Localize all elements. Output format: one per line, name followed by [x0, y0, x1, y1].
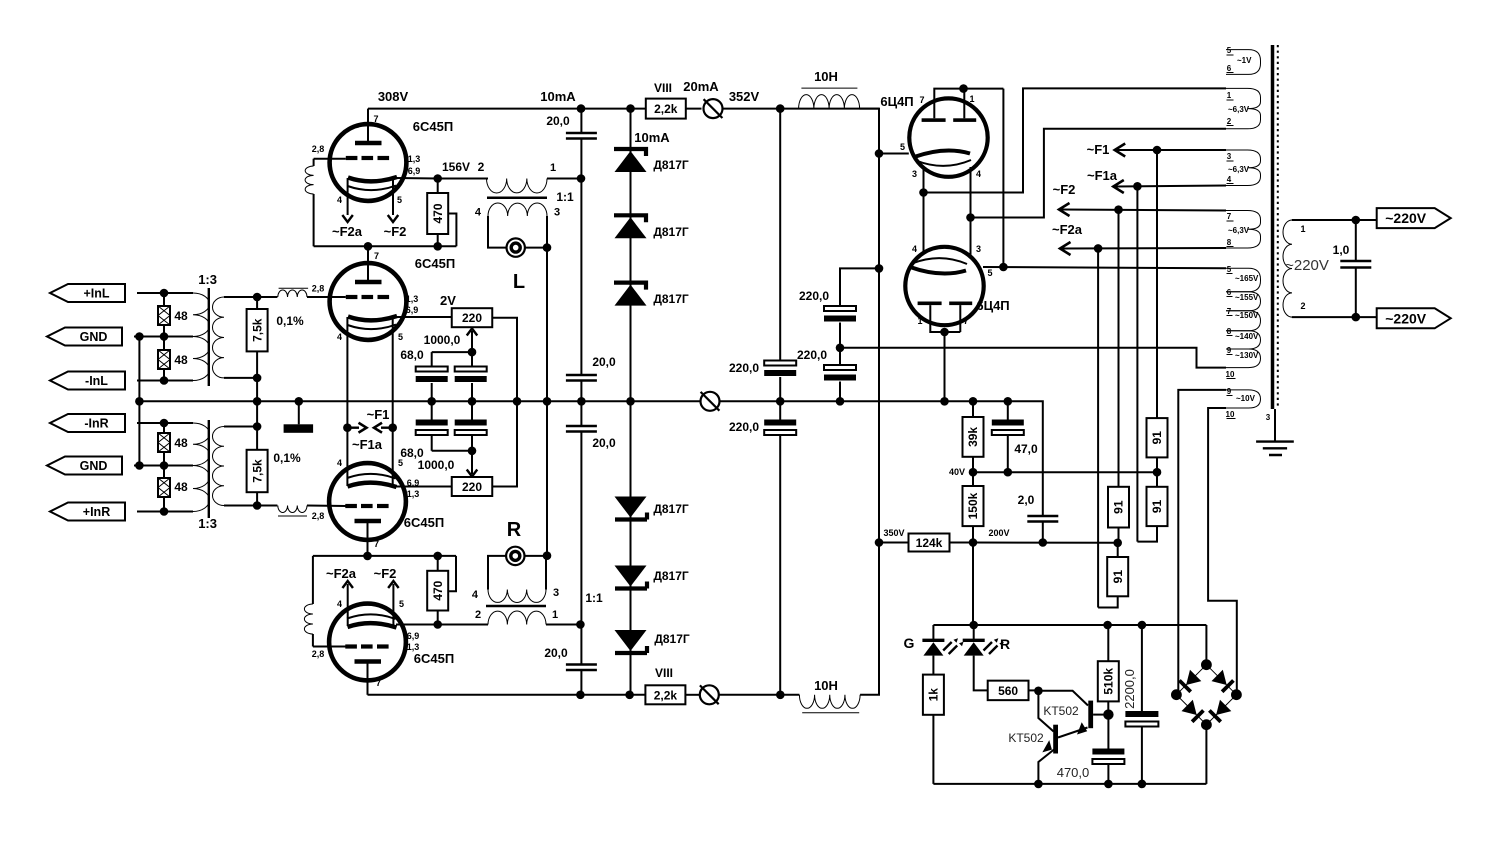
svg-text:6С45П: 6С45П [413, 119, 453, 134]
junction 40V node [969, 468, 978, 477]
junction 470-R bottom [433, 620, 442, 629]
svg-text:10H: 10H [814, 678, 838, 693]
winding HV 155V [1226, 292, 1261, 311]
junction column A rail [776, 397, 785, 406]
svg-text:4: 4 [337, 195, 342, 205]
resistor 1k [923, 675, 944, 715]
svg-text:~220V: ~220V [1285, 257, 1329, 274]
svg-text:220: 220 [462, 480, 482, 494]
junction ~F2a [1094, 244, 1103, 253]
capacitor 1,0 [1340, 261, 1371, 268]
svg-text:1000,0: 1000,0 [418, 458, 455, 472]
svg-text:350V: 350V [883, 528, 904, 538]
svg-text:6,9: 6,9 [407, 478, 420, 488]
junction primary top [1352, 216, 1361, 225]
svg-text:6Ц4П: 6Ц4П [880, 94, 913, 109]
svg-text:2,8: 2,8 [312, 511, 325, 521]
capacitor 20,0 #3 [566, 426, 597, 432]
capacitor 220,0 A-bot [764, 420, 796, 426]
heater arrow ~F2a (V4) [347, 584, 349, 626]
junction bridge bottom [1201, 719, 1212, 730]
svg-text:-InL: -InL [85, 374, 108, 388]
svg-text:3: 3 [553, 587, 559, 599]
svg-text:4: 4 [337, 599, 342, 609]
wire V2 grid lead [257, 296, 277, 298]
svg-text:7,5k: 7,5k [250, 459, 264, 483]
resistor 48 (R lower) [158, 478, 170, 497]
inductor 10H (bottom) [799, 695, 860, 709]
capacitor 20,0 #2 [566, 375, 597, 381]
resistor 48 (L upper) [158, 306, 170, 325]
inductor 10H (top) [799, 95, 860, 109]
svg-text:10H: 10H [814, 69, 838, 84]
winding HV 140V [1226, 331, 1261, 349]
junction 879-268 [875, 264, 884, 273]
svg-text:~F1: ~F1 [1087, 142, 1110, 157]
wire V2 cathode out [396, 316, 452, 318]
transformer T-inR secondary [213, 427, 224, 506]
svg-text:6С45П: 6С45П [414, 651, 454, 666]
bridge rectifier diodes [1176, 665, 1236, 725]
svg-text:VIII: VIII [654, 81, 672, 95]
junction -InR node [160, 419, 169, 428]
svg-text:2: 2 [1300, 301, 1305, 311]
svg-text:+InL: +InL [83, 287, 109, 301]
svg-text:Д817Г: Д817Г [653, 502, 689, 516]
wire 10H to rectifier column [860, 109, 879, 154]
arrow into 220-L [471, 331, 473, 352]
svg-text:8: 8 [1227, 327, 1232, 336]
jack L (RCA) [507, 238, 525, 256]
wire T-L sec right to jack node [546, 216, 548, 248]
wire V2 anode link line [314, 245, 457, 247]
winding 6,3V #3 [1226, 211, 1261, 249]
arrow into 220-R [471, 451, 473, 474]
svg-text:20,0: 20,0 [592, 355, 616, 369]
svg-text:1: 1 [550, 162, 556, 174]
winding HV 130V [1226, 349, 1261, 368]
resistor 91 #2 [1147, 487, 1168, 526]
wire heater leads between tubes left [923, 166, 925, 254]
svg-text:~6,3V: ~6,3V [1228, 226, 1250, 235]
svg-text:20mA: 20mA [683, 79, 719, 94]
svg-text:0,1%: 0,1% [273, 451, 301, 465]
transformer T-L core [487, 197, 547, 200]
wire LED block bottom rail [933, 783, 1206, 785]
svg-text:1:3: 1:3 [198, 272, 217, 287]
inductor grid coil V1 [305, 166, 314, 194]
capacitor 20,0 #1 [566, 133, 597, 139]
LED G [932, 625, 934, 640]
svg-text:G: G [904, 635, 915, 651]
junction 200V node [969, 538, 978, 547]
resistor 39k [963, 417, 984, 457]
junction Q-node [1034, 687, 1043, 696]
svg-text:2,8: 2,8 [312, 144, 325, 154]
resistor 220 (L) [452, 308, 493, 327]
terminal GND (left lower) [47, 457, 122, 475]
wire 350V column [878, 109, 880, 543]
transformer T-R primary [488, 611, 546, 625]
svg-text:5: 5 [399, 599, 404, 609]
junction bottom cap column [576, 691, 585, 700]
wire 200V line [973, 542, 1118, 544]
terminal -InR [50, 414, 125, 432]
terminal +InR [50, 503, 125, 521]
svg-text:48: 48 [174, 436, 188, 450]
svg-text:1:1: 1:1 [585, 591, 603, 605]
svg-text:48: 48 [174, 480, 188, 494]
svg-text:7: 7 [919, 95, 924, 105]
junction ~F2 [1114, 205, 1123, 214]
svg-text:7: 7 [374, 114, 379, 124]
svg-text:560: 560 [998, 684, 1018, 698]
transformer T-R core [486, 605, 546, 608]
resistor 560 [988, 681, 1029, 701]
wire cap B jog [840, 268, 879, 306]
junction GND-L node [160, 332, 169, 341]
svg-text:3: 3 [1227, 152, 1232, 161]
junction 7,5k top [253, 293, 262, 302]
svg-text:1: 1 [969, 94, 974, 104]
svg-text:+InR: +InR [83, 505, 110, 519]
junction caps bottom R [468, 447, 477, 456]
junction 2200 top [1138, 621, 1147, 630]
svg-text:2,0: 2,0 [1018, 493, 1035, 507]
junction Q1 base node [1103, 709, 1113, 719]
wire anode rail 308V [368, 108, 648, 110]
tube V6 6Ts4P (bottom) [905, 247, 983, 325]
svg-text:1,3: 1,3 [408, 154, 421, 164]
zener VD1 D817G [614, 149, 646, 156]
svg-text:510k: 510k [1102, 668, 1116, 695]
wire 130V tap line [840, 348, 1226, 368]
wire 10V tap9 down [1178, 390, 1226, 695]
junction bridge top [1201, 659, 1212, 670]
junction GND-R node [160, 461, 169, 470]
resistor 91 #4 [1107, 557, 1128, 596]
Q1 emitter / Q2 base link [1058, 728, 1088, 738]
transformer T-inL core [208, 288, 210, 386]
wire 40V line [973, 471, 1157, 473]
zener VD6 D817G [615, 646, 647, 653]
junction ~F1a [1133, 182, 1142, 191]
jack R (RCA) [506, 547, 524, 565]
svg-text:220: 220 [462, 311, 482, 325]
svg-text:~220V: ~220V [1385, 210, 1427, 226]
capacitor 220,0 B-bot [824, 365, 856, 370]
wire heater leads between tubes right [970, 167, 972, 257]
svg-text:1k: 1k [927, 688, 941, 702]
resistor 470 (L) [427, 193, 448, 234]
junction V6 pin5 node [999, 263, 1008, 272]
svg-text:39k: 39k [966, 427, 980, 447]
svg-text:47,0: 47,0 [1014, 442, 1038, 456]
svg-text:1: 1 [917, 316, 922, 326]
capacitor 20,0 #4 [566, 665, 597, 671]
transformer T-L secondary [488, 203, 547, 216]
zener VD4 D817G [615, 513, 647, 520]
capacitor 2200,0 [1125, 711, 1158, 717]
resistor 91 #1 [1147, 418, 1168, 457]
heater leg V1 pin4 [347, 178, 349, 215]
svg-text:5: 5 [900, 142, 905, 152]
zener VD2 D817G [614, 215, 646, 222]
wire mid (ground) rail [139, 400, 703, 402]
winding 6,3V #2 [1226, 150, 1261, 186]
junction V6 mid rail [940, 397, 949, 406]
junction GND-L [135, 332, 144, 341]
resistor 470 (R) [427, 571, 448, 611]
svg-text:5: 5 [987, 268, 992, 278]
svg-text:220,0: 220,0 [797, 348, 827, 362]
junction 7,5k bottom [253, 374, 262, 383]
fuse bottom [700, 685, 719, 704]
terminal ~220V bottom [1356, 316, 1377, 318]
junction column B tap [836, 344, 845, 353]
capacitor 220,0 A-top [764, 361, 796, 366]
wire primary top lead [1292, 220, 1356, 261]
svg-text:6Ц4П: 6Ц4П [976, 298, 1009, 313]
wire V1 grid lead [314, 158, 346, 160]
winding primary 220V [1283, 220, 1292, 317]
junction mid rail at 7,5k-L [253, 397, 262, 406]
svg-text:7: 7 [1227, 307, 1232, 316]
svg-text:220,0: 220,0 [729, 420, 759, 434]
svg-text:VIII: VIII [655, 666, 673, 680]
svg-text:5: 5 [1227, 265, 1232, 274]
svg-text:6: 6 [1227, 288, 1232, 297]
wire V1 anode to rail [367, 109, 369, 141]
junction 350V node [875, 538, 884, 547]
junction Q2 emitter bottom [1034, 780, 1043, 789]
transistor Q2 KT502 (lower) [1038, 691, 1053, 732]
capacitor 1000,0 (R) [455, 420, 487, 426]
junction 2,0 bottom [1039, 538, 1048, 547]
svg-text:0,1%: 0,1% [276, 314, 304, 328]
svg-text:6С45П: 6С45П [415, 256, 455, 271]
svg-text:470,0: 470,0 [1057, 765, 1090, 780]
svg-text:~220V: ~220V [1385, 310, 1427, 326]
capacitor 220,0 B-top [824, 306, 856, 311]
junction V3 anode node [363, 552, 372, 561]
resistor 48 (L lower) [158, 350, 170, 369]
svg-text:1: 1 [1227, 91, 1232, 100]
junction heater left node [919, 188, 928, 197]
LED R [973, 625, 975, 640]
wire 560 to base node [1029, 689, 1039, 691]
svg-text:1,3: 1,3 [407, 642, 420, 652]
wire psu column B top [839, 268, 841, 306]
capacitor 470,0 [1092, 749, 1124, 755]
transformer T-L primary [487, 179, 548, 194]
transistor Q1 KT502 (upper) [1038, 691, 1088, 706]
resistor 48 (R upper) [158, 433, 170, 452]
wire V3 cathode out [396, 486, 452, 488]
svg-text:220,0: 220,0 [799, 289, 829, 303]
capacitor 68,0 (R) [416, 420, 448, 426]
svg-text:20,0: 20,0 [592, 436, 616, 450]
wire ~F1 line [1117, 149, 1226, 151]
junction GND-R [135, 461, 144, 470]
resistor 7,5k (L) [247, 309, 268, 351]
transformer PT core [1271, 45, 1275, 409]
svg-text:2: 2 [475, 609, 481, 621]
resistor 91 #3 [1108, 487, 1129, 528]
wire V4 cathode out [396, 624, 438, 626]
svg-text:308V: 308V [378, 89, 409, 104]
junction 510k top [1103, 621, 1112, 630]
junction 470-R top [433, 552, 442, 561]
svg-text:20,0: 20,0 [546, 114, 570, 128]
wire V1 cathode out [396, 177, 438, 180]
svg-text:Д817Г: Д817Г [653, 158, 689, 172]
wire V4 grid lead [313, 646, 346, 648]
wire LED block top rail [933, 624, 1206, 626]
ground symbol [1274, 409, 1276, 442]
transformer T-inL primary [164, 292, 193, 294]
wire 7,5k to mid rail [256, 378, 258, 401]
tube V3 6C45P [329, 463, 406, 540]
svg-text:~F1a: ~F1a [1087, 168, 1118, 183]
wire GND bus vertical [138, 337, 140, 466]
wire V3 grid lead [307, 505, 346, 508]
svg-text:91: 91 [1150, 431, 1164, 445]
svg-text:10mA: 10mA [540, 89, 576, 104]
wire V5 cathode pin5 [879, 153, 909, 155]
junction ~F1 tap [343, 423, 352, 432]
heater line F1 left [346, 317, 348, 486]
svg-text:2: 2 [1227, 117, 1232, 126]
svg-text:8: 8 [1227, 238, 1232, 247]
junction 47,0 bottom [1004, 468, 1013, 477]
wire T-R sec left to jack [488, 556, 506, 590]
wire bridge top to rail [1205, 625, 1207, 665]
wire psu column A [779, 109, 781, 361]
svg-text:2200,0: 2200,0 [1122, 669, 1137, 709]
svg-text:3: 3 [1266, 413, 1271, 422]
junction cap 68-L rail [427, 397, 436, 406]
wire V2 anode lead [367, 246, 369, 282]
svg-text:156V: 156V [442, 160, 470, 174]
terminal ~220V top [1356, 219, 1377, 221]
junction 7,5k-R top [253, 422, 262, 431]
junction zener mid rail [626, 397, 635, 406]
transformer T-inL secondary [213, 297, 225, 378]
svg-text:4: 4 [337, 458, 342, 468]
svg-text:GND: GND [80, 459, 108, 473]
svg-text:48: 48 [174, 353, 188, 367]
svg-text:2: 2 [478, 160, 485, 174]
junction rail 39k [969, 397, 978, 406]
svg-text:~150V: ~150V [1235, 311, 1259, 320]
winding 6,3V #1 [1226, 88, 1261, 128]
svg-text:1,0: 1,0 [1333, 243, 1350, 257]
junction +InR node [160, 507, 169, 516]
wire jack ground bus [546, 248, 548, 556]
capacitor 2,0 [1027, 516, 1058, 522]
svg-text:Д817Г: Д817Г [653, 292, 689, 306]
wire V6 cathode pin5 [983, 267, 1226, 268]
wire ~F1a line [1116, 186, 1227, 187]
winding HV 150V [1226, 311, 1261, 331]
inductor grid coil V4 [304, 604, 313, 634]
svg-text:7: 7 [1227, 212, 1232, 221]
svg-text:L: L [513, 271, 525, 293]
junction 91#1 bottom [1153, 468, 1162, 477]
svg-text:7: 7 [374, 251, 379, 261]
svg-text:4: 4 [337, 332, 342, 342]
junction 91#3 bottom [1113, 539, 1122, 548]
svg-text:~F2a: ~F2a [332, 224, 363, 239]
junction ~F1 [1153, 146, 1162, 155]
svg-text:2,2k: 2,2k [654, 102, 678, 116]
junction bottom 10H left [776, 691, 785, 700]
junction column B rail [836, 397, 845, 406]
svg-text:R: R [507, 519, 522, 541]
svg-text:1: 1 [552, 609, 558, 621]
svg-text:Д817Г: Д817Г [654, 632, 690, 646]
junction ~F1a tap [388, 423, 397, 432]
svg-text:1,3: 1,3 [406, 294, 419, 304]
svg-text:7: 7 [376, 678, 381, 688]
resistor 510k [1098, 661, 1119, 701]
svg-text:6: 6 [1227, 64, 1232, 73]
wire V4 cathode to interstage R [438, 624, 488, 626]
svg-text:150k: 150k [966, 492, 980, 519]
junction bottom zener [625, 691, 634, 700]
wire heater net B (winding pin1) [924, 88, 1227, 192]
svg-text:91: 91 [1111, 570, 1125, 584]
wire R-LED to 560 [974, 656, 988, 691]
fuse mid [701, 392, 720, 411]
svg-text:91: 91 [1112, 500, 1126, 514]
svg-text:1000,0: 1000,0 [424, 333, 461, 347]
svg-text:124k: 124k [916, 536, 943, 550]
ground bar (signal ground) [298, 401, 300, 424]
wire zener column top [630, 109, 632, 695]
svg-text:2V: 2V [440, 293, 456, 308]
inductor grid choke V2 [278, 290, 307, 297]
junction bridge left [1171, 689, 1182, 700]
fuse top [704, 99, 723, 118]
svg-text:10: 10 [1226, 370, 1235, 379]
resistor 220 (R) [452, 477, 493, 496]
transformer T-inR core [208, 420, 210, 518]
terminal GND (left upper) [47, 328, 122, 346]
svg-text:4: 4 [475, 207, 482, 219]
wire 470-R side stub [449, 556, 456, 591]
wire 220-L right to crossrail [492, 318, 517, 487]
junction heater right node [966, 213, 975, 222]
winding ~10V [1226, 390, 1261, 408]
svg-text:~165V: ~165V [1235, 274, 1259, 283]
transformer T-R secondary [488, 590, 546, 603]
wire 7,5k-R to mid rail [256, 401, 258, 426]
junction interstage L right [577, 174, 586, 183]
heater arrow ~F2 (V4) [392, 584, 394, 627]
junction R-LED top [969, 621, 978, 630]
capacitor 1000,0 (L) [455, 367, 487, 372]
svg-text:5: 5 [1227, 46, 1232, 55]
svg-text:9: 9 [1227, 346, 1232, 355]
terminal +InL [50, 284, 125, 302]
junction 470-L bottom [433, 242, 442, 251]
svg-text:-InR: -InR [84, 417, 108, 431]
svg-text:9: 9 [1227, 387, 1232, 396]
tube V4 6C45P [329, 604, 406, 681]
svg-text:3: 3 [554, 207, 560, 219]
